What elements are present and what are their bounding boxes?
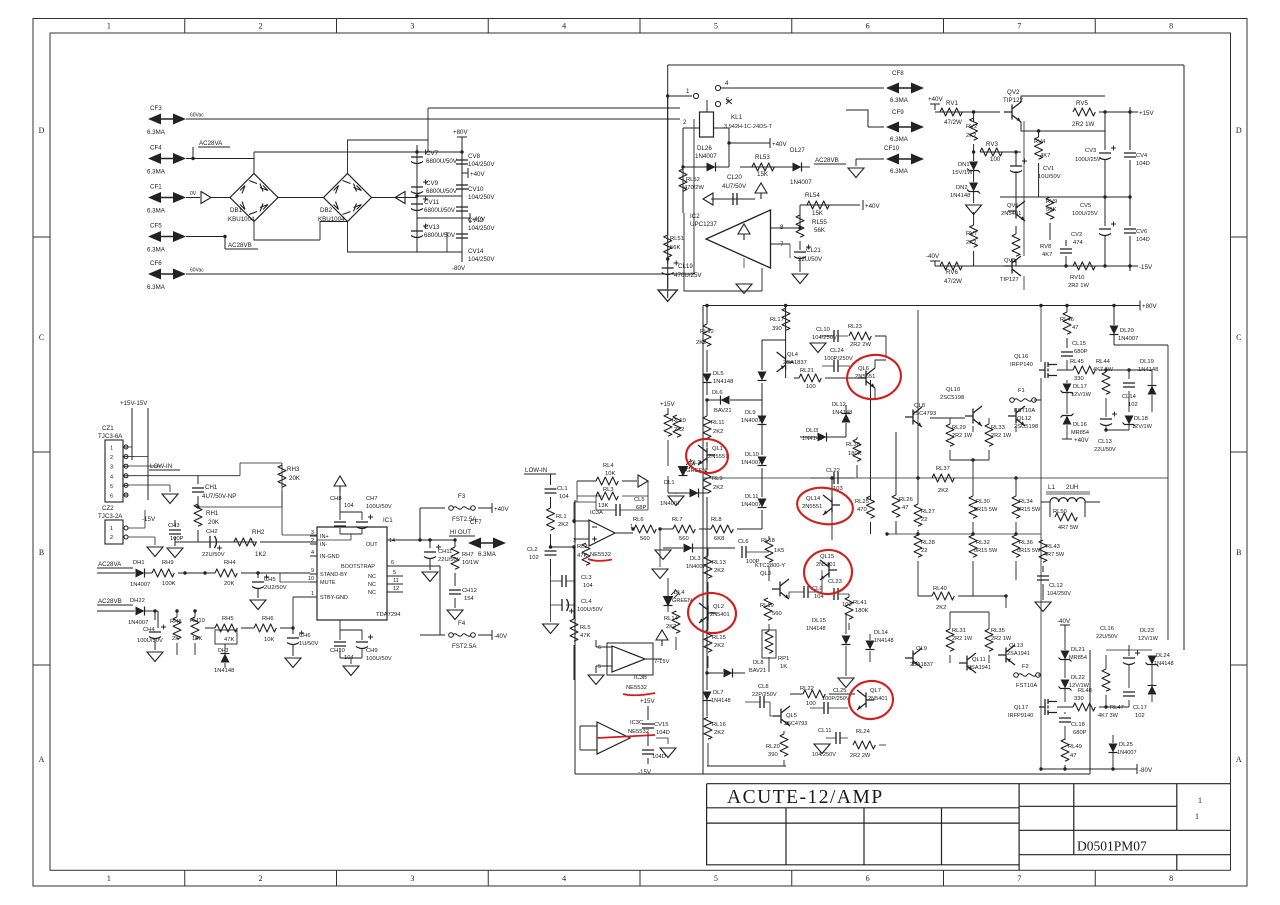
svg-text:8: 8 xyxy=(1169,874,1173,883)
svg-text:CF1: CF1 xyxy=(150,184,162,191)
svg-text:RL38: RL38 xyxy=(846,442,860,448)
svg-text:7-15V: 7-15V xyxy=(654,659,670,665)
svg-text:CV10: CV10 xyxy=(468,186,484,193)
svg-text:6.3MA: 6.3MA xyxy=(890,97,909,104)
svg-text:QL4: QL4 xyxy=(787,352,799,358)
svg-text:47/2W: 47/2W xyxy=(944,119,962,126)
svg-text:F3: F3 xyxy=(458,493,466,500)
svg-text:2N5401: 2N5401 xyxy=(868,696,888,702)
svg-text:CL3: CL3 xyxy=(581,575,592,581)
svg-text:-40V: -40V xyxy=(494,633,508,640)
svg-text:CH1: CH1 xyxy=(205,484,218,491)
svg-text:F4: F4 xyxy=(458,620,466,627)
svg-text:A: A xyxy=(39,755,45,764)
svg-text:CV4: CV4 xyxy=(1136,153,1148,159)
svg-text:CL10: CL10 xyxy=(816,327,830,333)
svg-text:15K: 15K xyxy=(757,171,769,178)
svg-text:10U/50V: 10U/50V xyxy=(1038,174,1061,180)
svg-text:DL6: DL6 xyxy=(712,390,723,396)
svg-text:DL9: DL9 xyxy=(745,410,756,416)
svg-text:RL49: RL49 xyxy=(1068,744,1082,750)
svg-text:6.3MA: 6.3MA xyxy=(890,136,909,143)
svg-text:CL11: CL11 xyxy=(818,728,831,734)
svg-text:22U/50V: 22U/50V xyxy=(1096,634,1118,640)
svg-text:IN-GND: IN-GND xyxy=(320,554,340,560)
svg-text:DL25: DL25 xyxy=(1119,742,1133,748)
svg-text:UPC1237: UPC1237 xyxy=(690,221,717,228)
svg-text:6K8: 6K8 xyxy=(714,536,724,542)
svg-text:CZ2: CZ2 xyxy=(102,505,114,512)
svg-text:47K: 47K xyxy=(577,553,587,559)
svg-text:470: 470 xyxy=(857,507,867,513)
svg-text:RL23: RL23 xyxy=(848,324,862,330)
svg-text:6800U/50V: 6800U/50V xyxy=(426,158,458,165)
svg-text:4K7 3W: 4K7 3W xyxy=(1093,367,1114,373)
svg-text:100U/50V: 100U/50V xyxy=(366,504,392,510)
svg-text:15K: 15K xyxy=(812,210,824,217)
svg-text:+15V: +15V xyxy=(640,698,655,705)
svg-text:RL26: RL26 xyxy=(899,497,913,503)
svg-text:QL5: QL5 xyxy=(786,713,797,719)
svg-text:CF8: CF8 xyxy=(892,70,904,77)
svg-text:B: B xyxy=(39,548,44,557)
svg-text:104: 104 xyxy=(559,494,569,500)
svg-text:D0501PM07: D0501PM07 xyxy=(1077,839,1147,854)
svg-text:6800U/50V: 6800U/50V xyxy=(424,207,456,214)
svg-text:104/250V: 104/250V xyxy=(468,256,495,263)
svg-text:RL41: RL41 xyxy=(853,600,867,606)
svg-text:RL45: RL45 xyxy=(1070,359,1084,365)
svg-text:CV6: CV6 xyxy=(1136,229,1147,235)
svg-text:5: 5 xyxy=(714,22,718,31)
svg-text:330: 330 xyxy=(1074,376,1084,382)
svg-text:DL26: DL26 xyxy=(697,145,712,152)
svg-text:56K: 56K xyxy=(814,227,826,234)
svg-text:DL12: DL12 xyxy=(832,402,846,408)
svg-text:RL53: RL53 xyxy=(755,154,770,161)
svg-text:QL8: QL8 xyxy=(914,403,925,409)
svg-text:-40V: -40V xyxy=(472,216,486,223)
svg-text:2N5551: 2N5551 xyxy=(708,454,728,460)
svg-text:QL15: QL15 xyxy=(820,554,834,560)
svg-text:104: 104 xyxy=(344,503,354,509)
svg-text:RL52: RL52 xyxy=(686,177,700,183)
svg-text:1: 1 xyxy=(311,591,314,597)
svg-text:12: 12 xyxy=(393,586,399,592)
svg-text:DL5: DL5 xyxy=(713,371,724,377)
svg-text:DL24: DL24 xyxy=(1156,653,1171,659)
svg-text:KL1: KL1 xyxy=(731,114,743,121)
svg-text:0R15 5W: 0R15 5W xyxy=(974,507,998,513)
svg-text:2N5551: 2N5551 xyxy=(855,374,875,380)
svg-text:3: 3 xyxy=(410,22,414,31)
svg-text:DL11: DL11 xyxy=(745,494,758,500)
svg-text:RL9: RL9 xyxy=(712,476,723,482)
svg-text:+15V: +15V xyxy=(1139,110,1154,117)
svg-text:+40V: +40V xyxy=(928,96,943,103)
svg-text:2: 2 xyxy=(110,455,113,461)
svg-text:2R2 2W: 2R2 2W xyxy=(850,342,871,348)
svg-text:CH8: CH8 xyxy=(330,496,342,502)
svg-text:HI OUT: HI OUT xyxy=(450,529,471,536)
svg-text:CH6: CH6 xyxy=(299,633,311,639)
svg-text:CL15: CL15 xyxy=(1072,341,1086,347)
svg-text:2R2 1W: 2R2 1W xyxy=(991,636,1012,642)
svg-text:12V/1W: 12V/1W xyxy=(1071,392,1092,398)
svg-text:104: 104 xyxy=(583,583,593,589)
svg-text:2N5401: 2N5401 xyxy=(1001,211,1021,217)
svg-text:CL20: CL20 xyxy=(727,174,742,181)
svg-text:CH7: CH7 xyxy=(366,496,378,502)
svg-text:RL48: RL48 xyxy=(1078,688,1092,694)
svg-text:6.3MA: 6.3MA xyxy=(147,169,166,176)
svg-text:QL14: QL14 xyxy=(806,496,821,502)
svg-text:560: 560 xyxy=(640,536,650,542)
svg-text:IRFP140: IRFP140 xyxy=(1010,362,1033,368)
svg-text:CF7: CF7 xyxy=(470,519,482,526)
svg-text:4R7 5W: 4R7 5W xyxy=(1044,552,1065,558)
svg-text:RH2: RH2 xyxy=(252,529,265,536)
svg-text:QL2: QL2 xyxy=(713,604,724,610)
svg-text:TIP127: TIP127 xyxy=(1000,277,1019,283)
svg-text:-80V: -80V xyxy=(452,265,466,272)
svg-text:CH3: CH3 xyxy=(168,523,180,529)
svg-text:QL11: QL11 xyxy=(972,657,986,663)
svg-text:6: 6 xyxy=(110,494,113,500)
svg-text:-15V: -15V xyxy=(1139,264,1153,271)
svg-text:-15V: -15V xyxy=(638,769,652,776)
svg-text:RL1: RL1 xyxy=(556,514,567,520)
svg-text:330: 330 xyxy=(1074,696,1084,702)
svg-text:STBY-GND: STBY-GND xyxy=(320,595,348,601)
svg-text:100U/50V: 100U/50V xyxy=(577,607,603,613)
svg-text:2N5401: 2N5401 xyxy=(816,562,836,568)
svg-text:+40V: +40V xyxy=(1074,437,1089,444)
svg-text:NE5532: NE5532 xyxy=(590,552,611,558)
svg-text:RL31: RL31 xyxy=(952,628,966,634)
svg-text:IN+: IN+ xyxy=(320,534,329,540)
svg-text:2R2 1W: 2R2 1W xyxy=(952,636,973,642)
svg-text:DL16: DL16 xyxy=(1073,422,1087,428)
svg-text:RV1: RV1 xyxy=(946,100,958,107)
svg-text:DL8: DL8 xyxy=(753,660,764,666)
svg-text:DN2: DN2 xyxy=(956,185,968,191)
svg-text:CL2: CL2 xyxy=(527,547,538,553)
svg-text:RV8: RV8 xyxy=(1040,244,1051,250)
svg-text:RH10: RH10 xyxy=(190,618,205,624)
svg-text:RH7: RH7 xyxy=(462,552,474,558)
svg-text:QV3: QV3 xyxy=(1004,258,1016,264)
svg-text:RH3: RH3 xyxy=(287,466,300,473)
svg-text:QL3: QL3 xyxy=(760,571,771,577)
svg-text:QV2: QV2 xyxy=(1007,89,1020,96)
svg-text:IC3C: IC3C xyxy=(630,720,643,726)
svg-text:RH5: RH5 xyxy=(222,616,234,622)
svg-text:22U/50V: 22U/50V xyxy=(202,552,225,558)
svg-text:KBU1004: KBU1004 xyxy=(228,216,255,223)
svg-text:DL22: DL22 xyxy=(1071,675,1085,681)
svg-text:2N5551: 2N5551 xyxy=(802,504,822,510)
svg-text:100P/250V: 100P/250V xyxy=(824,356,853,362)
svg-text:RL7: RL7 xyxy=(672,517,683,523)
svg-text:MUTE: MUTE xyxy=(320,580,336,586)
svg-text:CL13: CL13 xyxy=(1098,439,1112,445)
svg-text:2K: 2K xyxy=(172,636,179,642)
svg-text:+40V: +40V xyxy=(865,203,880,210)
svg-text:DL1: DL1 xyxy=(664,480,675,486)
svg-text:QL13: QL13 xyxy=(1009,643,1023,649)
svg-text:7: 7 xyxy=(1017,22,1021,31)
svg-text:CF5: CF5 xyxy=(150,223,162,230)
svg-text:DL4: DL4 xyxy=(674,590,685,596)
svg-text:14: 14 xyxy=(389,538,395,544)
svg-text:2: 2 xyxy=(683,119,687,126)
svg-text:1: 1 xyxy=(1198,796,1202,805)
svg-text:2SC4793: 2SC4793 xyxy=(784,721,807,727)
svg-text:IC3A: IC3A xyxy=(590,510,603,516)
svg-text:-80V: -80V xyxy=(1139,767,1153,774)
svg-text:0V: 0V xyxy=(190,191,197,197)
svg-text:BAV21: BAV21 xyxy=(749,668,766,674)
svg-text:CV13: CV13 xyxy=(424,224,440,231)
svg-text:CL17: CL17 xyxy=(1133,705,1147,711)
svg-text:RL8: RL8 xyxy=(711,517,722,523)
svg-text:680P: 680P xyxy=(1074,349,1088,355)
svg-text:QL10: QL10 xyxy=(946,387,960,393)
svg-text:DL27: DL27 xyxy=(790,147,805,154)
svg-text:47K: 47K xyxy=(224,637,234,643)
svg-text:104/250V: 104/250V xyxy=(468,161,495,168)
svg-text:RL24: RL24 xyxy=(856,729,871,735)
svg-text:AC28VB: AC28VB xyxy=(815,157,839,164)
svg-text:RL18: RL18 xyxy=(761,538,775,544)
svg-text:104/250V: 104/250V xyxy=(1047,591,1071,597)
svg-text:QL6: QL6 xyxy=(858,366,869,372)
svg-text:1N4007: 1N4007 xyxy=(695,153,717,160)
svg-text:RL32: RL32 xyxy=(976,540,990,546)
svg-text:100U/50V: 100U/50V xyxy=(137,638,163,644)
svg-text:AC28VA: AC28VA xyxy=(98,561,122,568)
svg-text:100P: 100P xyxy=(170,536,184,542)
svg-text:MR854: MR854 xyxy=(1069,655,1087,661)
svg-text:CV15: CV15 xyxy=(654,722,669,728)
svg-text:AC28VA: AC28VA xyxy=(199,140,223,147)
svg-text:FST2.5A: FST2.5A xyxy=(452,643,477,650)
svg-text:22P/250V: 22P/250V xyxy=(752,692,777,698)
svg-text:12V/1W: 12V/1W xyxy=(1132,424,1153,430)
svg-text:RL16: RL16 xyxy=(712,722,726,728)
svg-text:RL28: RL28 xyxy=(921,540,935,546)
svg-text:11: 11 xyxy=(393,578,399,584)
svg-text:2K2: 2K2 xyxy=(966,133,976,139)
svg-text:1: 1 xyxy=(107,874,111,883)
svg-text:-40V: -40V xyxy=(926,253,940,260)
svg-text:9: 9 xyxy=(311,568,314,574)
svg-text:560: 560 xyxy=(679,536,689,542)
svg-text:680P: 680P xyxy=(1073,730,1087,736)
svg-text:TJC3-2A: TJC3-2A xyxy=(98,513,123,520)
svg-text:4: 4 xyxy=(725,80,729,87)
svg-text:4U7/50V: 4U7/50V xyxy=(722,183,747,190)
svg-text:2SA1941: 2SA1941 xyxy=(1007,651,1030,657)
svg-text:CL16: CL16 xyxy=(1100,626,1114,632)
svg-text:4: 4 xyxy=(562,22,566,31)
svg-text:+15V-15V: +15V-15V xyxy=(120,400,148,407)
svg-text:RL54: RL54 xyxy=(805,192,820,199)
svg-text:1N4148: 1N4148 xyxy=(832,410,852,416)
svg-text:+40V: +40V xyxy=(772,141,787,148)
svg-text:1: 1 xyxy=(1195,812,1199,821)
svg-text:1: 1 xyxy=(110,446,113,452)
svg-text:DL17: DL17 xyxy=(1073,384,1087,390)
svg-text:RL29: RL29 xyxy=(952,425,966,431)
svg-text:2K2: 2K2 xyxy=(936,605,946,611)
svg-text:100P/250V: 100P/250V xyxy=(822,696,850,702)
svg-text:2K2: 2K2 xyxy=(696,340,706,346)
svg-text:1N4007: 1N4007 xyxy=(686,564,706,570)
svg-text:CL5: CL5 xyxy=(634,497,645,503)
svg-text:100K: 100K xyxy=(162,581,176,587)
svg-text:RL44: RL44 xyxy=(1096,359,1111,365)
svg-text:15K: 15K xyxy=(192,636,202,642)
svg-text:100: 100 xyxy=(806,384,816,390)
svg-text:5: 5 xyxy=(110,484,113,490)
svg-text:CF10: CF10 xyxy=(884,145,900,152)
svg-text:QL9: QL9 xyxy=(916,646,927,652)
svg-text:RL2: RL2 xyxy=(577,544,588,550)
svg-text:3: 3 xyxy=(311,530,314,536)
svg-text:2SC5198: 2SC5198 xyxy=(1014,424,1038,430)
svg-text:CL25: CL25 xyxy=(833,688,846,694)
svg-text:CV14: CV14 xyxy=(468,248,484,255)
svg-text:100U/50V: 100U/50V xyxy=(366,656,392,662)
svg-text:RL27: RL27 xyxy=(921,509,935,515)
svg-text:100U/25V: 100U/25V xyxy=(1072,211,1098,217)
svg-text:2SC4793: 2SC4793 xyxy=(912,411,936,417)
svg-text:100P: 100P xyxy=(746,559,760,565)
svg-text:2R2 1W: 2R2 1W xyxy=(1068,283,1089,289)
svg-text:RL40: RL40 xyxy=(933,586,947,592)
svg-text:104/250V: 104/250V xyxy=(468,225,495,232)
svg-text:DL2: DL2 xyxy=(690,460,701,466)
svg-text:CL23: CL23 xyxy=(828,579,842,585)
svg-text:DL3: DL3 xyxy=(690,556,701,562)
svg-text:0R15 5W: 0R15 5W xyxy=(1017,507,1041,513)
svg-text:RL55: RL55 xyxy=(812,219,827,226)
svg-text:RH6: RH6 xyxy=(262,616,274,622)
svg-text:DL19: DL19 xyxy=(1140,359,1154,365)
svg-text:CF6: CF6 xyxy=(150,260,162,267)
svg-text:RV10: RV10 xyxy=(1070,275,1084,281)
svg-text:RV9: RV9 xyxy=(1046,199,1057,205)
svg-text:TDA7294: TDA7294 xyxy=(376,612,401,618)
svg-text:1N4007: 1N4007 xyxy=(790,179,812,186)
svg-text:RV5: RV5 xyxy=(1076,100,1088,107)
svg-text:RL19: RL19 xyxy=(760,603,774,609)
svg-text:DL10: DL10 xyxy=(745,452,759,458)
svg-text:CH10: CH10 xyxy=(330,648,345,654)
svg-text:68P: 68P xyxy=(636,505,646,511)
svg-text:CV11: CV11 xyxy=(424,199,440,206)
svg-text:CL8: CL8 xyxy=(758,684,769,690)
svg-text:TIP122: TIP122 xyxy=(1003,97,1024,104)
svg-text:FST10A: FST10A xyxy=(1016,683,1037,689)
svg-text:2K2: 2K2 xyxy=(713,485,723,491)
svg-text:RL36: RL36 xyxy=(1019,540,1033,546)
svg-text:TJC3-6A: TJC3-6A xyxy=(98,433,123,440)
svg-text:DH22: DH22 xyxy=(130,598,145,604)
svg-text:DB2: DB2 xyxy=(320,207,333,214)
svg-text:390: 390 xyxy=(772,326,782,332)
svg-text:BOOTSTRAP: BOOTSTRAP xyxy=(341,564,375,570)
svg-text:2UH: 2UH xyxy=(1066,484,1078,491)
svg-text:RL11: RL11 xyxy=(711,420,724,426)
svg-text:560: 560 xyxy=(772,611,782,617)
svg-text:56K: 56K xyxy=(670,245,680,251)
svg-text:NC: NC xyxy=(368,574,376,580)
svg-text:DL18: DL18 xyxy=(1134,416,1148,422)
svg-text:RL10: RL10 xyxy=(672,418,686,424)
svg-text:2N5401: 2N5401 xyxy=(710,612,730,618)
svg-text:KTC2800-Y: KTC2800-Y xyxy=(755,563,785,569)
svg-text:2: 2 xyxy=(110,535,113,541)
svg-text:A: A xyxy=(1236,755,1242,764)
svg-text:8: 8 xyxy=(1169,22,1173,31)
svg-text:2R2 1W: 2R2 1W xyxy=(1072,121,1095,128)
svg-text:DL21: DL21 xyxy=(1071,647,1085,653)
svg-text:3 942H-1C-24DS-T: 3 942H-1C-24DS-T xyxy=(724,124,773,130)
svg-text:AC28VB: AC28VB xyxy=(228,242,252,249)
svg-text:RL20: RL20 xyxy=(766,744,780,750)
svg-text:10K: 10K xyxy=(264,637,274,643)
svg-text:6.3MA: 6.3MA xyxy=(478,551,497,558)
svg-text:CV2: CV2 xyxy=(1071,232,1082,238)
svg-text:104D: 104D xyxy=(652,754,666,760)
svg-text:22: 22 xyxy=(921,548,927,554)
svg-text:6.3MA: 6.3MA xyxy=(147,208,166,215)
svg-text:RP1: RP1 xyxy=(778,656,789,662)
svg-text:CV1: CV1 xyxy=(1043,166,1054,172)
svg-text:2U2/50V: 2U2/50V xyxy=(264,585,287,591)
svg-text:0R15 5W: 0R15 5W xyxy=(974,548,998,554)
svg-text:2SA1941: 2SA1941 xyxy=(968,665,991,671)
svg-text:IRFP9140: IRFP9140 xyxy=(1008,713,1033,719)
svg-text:CH11: CH11 xyxy=(438,549,452,555)
svg-text:1K5: 1K5 xyxy=(774,548,784,554)
svg-text:L1: L1 xyxy=(1048,484,1055,491)
svg-text:D: D xyxy=(39,126,45,135)
svg-text:RV7: RV7 xyxy=(966,231,977,237)
svg-text:IC3B: IC3B xyxy=(634,675,647,681)
svg-text:RL43: RL43 xyxy=(1046,544,1060,550)
svg-text:5: 5 xyxy=(598,664,601,670)
svg-text:+40V: +40V xyxy=(494,506,509,513)
svg-text:1: 1 xyxy=(686,88,690,95)
svg-text:1N4007: 1N4007 xyxy=(741,418,761,424)
svg-text:154: 154 xyxy=(464,596,474,602)
svg-text:CL24: CL24 xyxy=(830,348,845,354)
svg-text:LOW-IN: LOW-IN xyxy=(150,463,172,470)
svg-text:6.3MA: 6.3MA xyxy=(890,168,909,175)
svg-text:2K2: 2K2 xyxy=(714,568,724,574)
svg-text:2K2: 2K2 xyxy=(714,730,724,736)
svg-text:DH3: DH3 xyxy=(218,648,228,654)
svg-text:102: 102 xyxy=(1128,402,1138,408)
svg-text:STAND-BY: STAND-BY xyxy=(320,572,348,578)
svg-text:10K: 10K xyxy=(605,471,615,477)
svg-text:DB1: DB1 xyxy=(230,207,243,214)
svg-text:7: 7 xyxy=(1017,874,1021,883)
